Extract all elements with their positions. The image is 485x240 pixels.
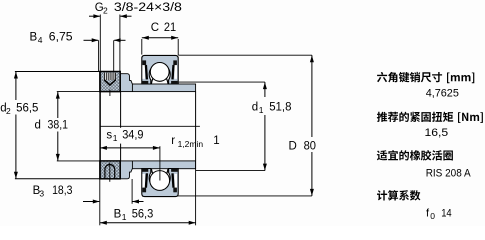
seal right upper bbox=[175, 65, 178, 79]
inner ring shoulder upper bbox=[120, 74, 132, 92]
outer ring lower (arch with ball opening) bbox=[142, 169, 178, 197]
inner ring sleeve band upper bbox=[120, 84, 195, 92]
svg-text:1,2min: 1,2min bbox=[178, 139, 204, 149]
svg-text:s: s bbox=[106, 130, 112, 142]
tightening torque title (CJK outlines) bbox=[377, 112, 483, 123]
svg-text:80: 80 bbox=[304, 141, 316, 153]
dimension C extension lines bbox=[141, 39, 143, 55]
ball upper bbox=[150, 63, 169, 82]
set screw axis stub upper bbox=[109, 90, 111, 96]
svg-text:B: B bbox=[114, 209, 122, 221]
svg-text:0: 0 bbox=[430, 211, 435, 221]
B1 left extension line bbox=[99, 179, 101, 226]
svg-text:1: 1 bbox=[259, 105, 264, 115]
outer ring upper (arch with ball opening) bbox=[142, 55, 178, 84]
dimension C line with arrows bbox=[142, 37, 178, 39]
svg-text:2: 2 bbox=[6, 106, 11, 116]
svg-text:r: r bbox=[171, 135, 175, 147]
dimension d2 line with arrows bbox=[15, 72, 17, 101]
svg-text:56,5: 56,5 bbox=[16, 103, 38, 115]
svg-text:3: 3 bbox=[39, 188, 44, 198]
d2 extension lines bbox=[15, 71, 100, 73]
seal left upper bbox=[142, 65, 145, 79]
svg-text:3/8-24×3/8: 3/8-24×3/8 bbox=[114, 2, 182, 14]
B1 right extension line bbox=[195, 161, 197, 225]
svg-text:d: d bbox=[35, 120, 41, 132]
svg-text:2: 2 bbox=[103, 5, 108, 15]
rubber seating ring title (CJK outlines) bbox=[377, 150, 453, 160]
dimension d1 line with arrows bbox=[264, 82, 266, 97]
eccentric locking collar upper (cross-hatched) bbox=[100, 72, 120, 92]
label d 38,1 bbox=[33, 118, 69, 131]
svg-text:RIS 208 A: RIS 208 A bbox=[426, 167, 472, 179]
svg-text:4: 4 bbox=[38, 35, 43, 45]
sleeve right end face line through bore bbox=[195, 92, 197, 161]
svg-text:51,8: 51,8 bbox=[269, 101, 291, 113]
dimension s1 right extension line bbox=[159, 146, 161, 180]
svg-text:38,1: 38,1 bbox=[48, 120, 69, 132]
sleeve left end face line bbox=[99, 72, 101, 179]
inner ring raceway shoulders lower bbox=[151, 169, 154, 177]
dimension D line with arrows bbox=[311, 55, 313, 137]
svg-text:d: d bbox=[252, 101, 258, 113]
svg-text:56,3: 56,3 bbox=[132, 209, 154, 221]
inner ring raceway shoulders upper bbox=[151, 76, 154, 84]
collar screw arch lower bbox=[105, 165, 115, 179]
dimension B4 arrows bbox=[84, 39, 99, 41]
D extension lines bbox=[178, 54, 312, 56]
calculation factor title (CJK outlines) bbox=[377, 190, 420, 200]
ball lower bbox=[150, 171, 170, 191]
svg-text:6,75: 6,75 bbox=[49, 31, 73, 43]
set screw socket upper bbox=[104, 73, 116, 80]
dimension s1 line with arrows bbox=[100, 147, 160, 149]
dimension B3 right extension line bbox=[131, 179, 133, 204]
dimension B1 line with arrows bbox=[100, 222, 196, 224]
svg-text:1: 1 bbox=[213, 135, 219, 147]
d1 extension lines bbox=[179, 81, 265, 83]
svg-text:C: C bbox=[151, 22, 159, 34]
dimension G2 arrows bbox=[89, 15, 100, 17]
svg-text:D: D bbox=[289, 141, 297, 153]
eccentric locking collar lower (cross-hatched) bbox=[100, 161, 120, 179]
svg-text:16,5: 16,5 bbox=[425, 127, 449, 139]
collar screw axis line lower bbox=[109, 163, 111, 182]
label d2 56,5 bbox=[0, 101, 40, 115]
seal right lower bbox=[175, 174, 178, 188]
seal left lower bbox=[142, 174, 145, 188]
svg-text:1: 1 bbox=[113, 133, 118, 143]
hex key size title (CJK outlines) bbox=[377, 72, 474, 83]
dimension d line with arrows bbox=[57, 92, 59, 118]
svg-text:21: 21 bbox=[164, 22, 176, 34]
inner ring sleeve band lower bbox=[120, 161, 195, 169]
svg-text:34,9: 34,9 bbox=[122, 130, 143, 142]
dimension G2 extension lines bbox=[99, 15, 101, 72]
svg-text:B: B bbox=[30, 31, 38, 43]
d extension lines bbox=[57, 91, 100, 93]
dimension B3 arrows bbox=[83, 201, 99, 203]
svg-text:4,7625: 4,7625 bbox=[426, 87, 459, 99]
svg-text:18,3: 18,3 bbox=[52, 185, 72, 197]
collar right face line through bore bbox=[120, 92, 122, 161]
shaft axis centerline bbox=[100, 125, 200, 127]
svg-text:14: 14 bbox=[441, 207, 452, 219]
dimension B4 extension lines bbox=[98, 40, 100, 71]
inner ring shoulder lower bbox=[120, 161, 132, 179]
s1 label background bbox=[104, 128, 146, 144]
svg-text:1: 1 bbox=[122, 212, 127, 222]
